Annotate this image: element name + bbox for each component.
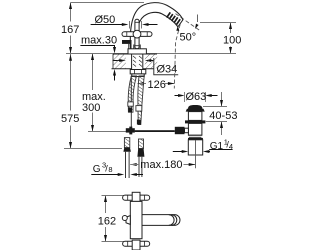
wire dim 40-53: [203, 106, 227, 108]
left hose end fitting: [123, 138, 130, 178]
pop-up horizontal rod: [135, 130, 175, 132]
node arrow 167 bottom: [69, 47, 72, 54]
plan body: [130, 201, 142, 238]
aerator end face: [178, 20, 183, 27]
svg-text:167: 167: [61, 24, 79, 36]
wire top extension line: [71, 2, 145, 4]
svg-text:max.180: max.180: [140, 159, 182, 171]
cap rim: [186, 109, 205, 112]
aerator bands: [167, 12, 181, 24]
svg-text:300: 300: [82, 102, 100, 114]
svg-text:162: 162: [98, 216, 116, 228]
handle cross front: horizontal arm: [122, 19, 152, 49]
mounting nut dark band: [188, 138, 203, 140]
wire rod extension line: [88, 131, 127, 133]
node arrow max.300 bottom: [91, 125, 94, 132]
node label Ø63: [186, 90, 206, 102]
wire dim Ø50 right: [142, 23, 149, 26]
svg-text:G1: G1: [210, 141, 224, 152]
shank through deck: [132, 54, 143, 70]
plan pop-up knob: [122, 216, 130, 225]
wire aerator axis dashed line: [176, 14, 200, 31]
right hose end fitting: [137, 139, 144, 177]
spout outer curve: [130, 3, 183, 49]
wire max.30 leader drop: [114, 46, 116, 50]
svg-text:G: G: [93, 164, 101, 175]
svg-text:40-53: 40-53: [209, 110, 237, 122]
node Ø34 label box: [154, 58, 179, 75]
svg-text:Ø63: Ø63: [186, 91, 207, 103]
wire dim Ø63: [175, 95, 181, 97]
wire dim Ø50 ticks: [129, 21, 131, 29]
deck slab with hatch: [112, 54, 158, 69]
body lower: [188, 123, 202, 135]
node 50 degree angle arrowheads: [195, 24, 199, 29]
pop-up rod vertical: [130, 76, 132, 130]
svg-text:max.30: max.30: [81, 34, 117, 46]
wire vertical tick at outlet: [197, 15, 199, 23]
plan handle top bar: [123, 192, 150, 201]
plan handle bottom bar: [123, 240, 150, 250]
svg-text:50°: 50°: [180, 31, 197, 43]
node arrow 100 top: [229, 23, 232, 30]
node arrow 575 top: [69, 54, 72, 61]
wire dim 126: [138, 82, 145, 85]
neck: [188, 112, 202, 121]
node arrow 167 top: [69, 3, 72, 10]
node arrow max.300 top: [91, 54, 94, 61]
plan spout: [142, 215, 180, 226]
clamp joint: [185, 128, 189, 133]
lever block: [175, 127, 185, 134]
wire dim Ø50 left leader underline: [91, 24, 124, 26]
flange dark ring: [185, 120, 205, 123]
hub: [133, 30, 141, 38]
wire dim max.180: [130, 163, 137, 166]
wire dim G1 1/4 arrows: [173, 151, 184, 153]
wire 100 extension line: [200, 22, 236, 24]
spout inner curve: [136, 12, 178, 49]
mounting nut: [130, 70, 146, 77]
right flexible hose: [136, 76, 144, 125]
pop-up rod coupler: [126, 127, 135, 135]
pop-up knob left: [122, 40, 131, 44]
node arrow 100 bottom: [229, 47, 232, 54]
dome cap: [188, 105, 202, 109]
vertical arm: [135, 19, 139, 49]
wire hose-end extension line: [64, 148, 122, 150]
wire dim G3/8 arrows: [118, 173, 125, 176]
wire 100 dimension line: [230, 23, 232, 54]
body rings: [188, 134, 202, 136]
wire deck top line: [66, 53, 236, 55]
svg-text:100: 100: [223, 34, 241, 46]
svg-text:126: 126: [148, 79, 166, 91]
wire dim 162: [102, 195, 125, 197]
svg-text:8: 8: [108, 165, 112, 174]
body neck and base: [122, 40, 146, 54]
node arrow 575 bottom: [69, 142, 72, 149]
node arrow max.30 up below deck: [113, 69, 116, 76]
tailpipe centerline: [195, 140, 197, 168]
node arrow max.30 down: [113, 47, 116, 54]
wire 167/575 dimension vertical line: [70, 3, 72, 149]
svg-text:Ø34: Ø34: [157, 63, 178, 75]
wire spout projection dashed line: [174, 24, 180, 88]
wire max.300 dimension line: [92, 54, 94, 132]
wire dim Ø34 arrows: [113, 60, 122, 62]
left flexible hose: [128, 76, 137, 112]
drain pop-up waste assembly: [175, 105, 206, 168]
tailpipe: [188, 140, 202, 155]
escutcheon: [128, 49, 146, 54]
svg-text:575: 575: [61, 113, 79, 125]
faucet front view spout: [130, 3, 183, 49]
